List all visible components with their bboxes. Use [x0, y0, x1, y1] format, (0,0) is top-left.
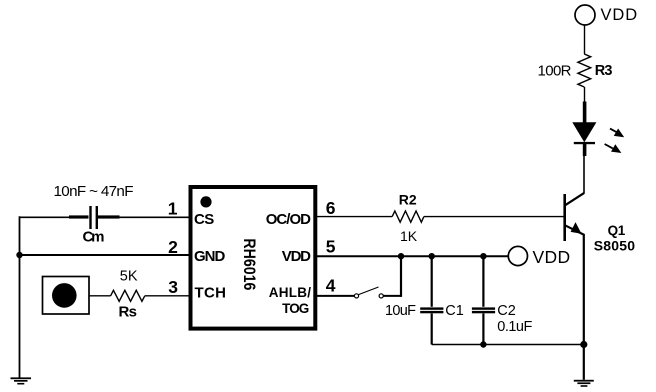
wire pad to Rs	[89, 295, 111, 297]
svg-text:5: 5	[326, 237, 336, 257]
svg-text:100R: 100R	[538, 63, 572, 80]
wire R2 to Q1 base	[424, 216, 565, 218]
wire pin2 net (GND) horizontal	[20, 254, 191, 256]
svg-text:10nF ~ 47nF: 10nF ~ 47nF	[54, 183, 134, 200]
wire switch to VDD net	[384, 256, 402, 297]
svg-text:OC/OD: OC/OD	[266, 211, 311, 228]
node junction C2 top	[480, 253, 486, 259]
wire LED to collector	[583, 156, 585, 193]
wire left vertical rail	[19, 216, 21, 378]
node junction at pin2/left rail	[16, 252, 22, 258]
svg-text:10uF: 10uF	[385, 303, 416, 319]
wire emitter down	[583, 234, 585, 380]
svg-text:Cm: Cm	[83, 228, 105, 245]
IC U1 RH6016 body	[191, 187, 316, 329]
svg-text:R2: R2	[399, 191, 417, 207]
capacitor Cm	[69, 206, 120, 229]
wire Rs to pin3	[145, 295, 190, 297]
svg-text:C2: C2	[497, 303, 516, 319]
LED light arrow 1	[610, 129, 624, 138]
wire R3 to LED	[584, 87, 586, 103]
resistor R2	[392, 211, 424, 222]
pin1 orientation dot	[200, 196, 211, 207]
capacitor C1	[420, 256, 443, 344]
power VDD (mid) circle	[508, 246, 527, 265]
svg-text:5K: 5K	[120, 268, 138, 284]
svg-text:RH6016: RH6016	[240, 238, 258, 290]
svg-text:3: 3	[168, 277, 178, 297]
node junction emitter/bottom	[580, 341, 587, 348]
wire pin5 (VDD net) horizontal	[316, 255, 509, 257]
svg-text:1: 1	[168, 199, 178, 219]
wire pin6 to R2	[316, 216, 393, 218]
svg-text:CS: CS	[194, 211, 214, 228]
svg-text:C1: C1	[445, 303, 464, 319]
capacitor C2	[472, 256, 495, 344]
node junction switch/VDD	[398, 253, 404, 259]
node junction C1 top	[429, 253, 435, 259]
LED light arrow 2	[605, 144, 622, 153]
transistor Q1	[563, 193, 584, 241]
switch SW1	[354, 287, 383, 298]
resistor R3	[578, 54, 591, 87]
svg-text:S8050: S8050	[594, 237, 636, 253]
node junction C2 bottom	[480, 341, 486, 347]
ground (right)	[574, 380, 594, 387]
svg-text:TOG: TOG	[282, 301, 309, 316]
svg-text:2: 2	[168, 237, 178, 257]
wire VDD to R3	[584, 25, 586, 54]
wire pin1 net (CS) horizontal	[20, 216, 191, 218]
svg-text:6: 6	[326, 198, 336, 218]
svg-text:TCH: TCH	[195, 284, 227, 301]
svg-text:4: 4	[326, 276, 336, 296]
svg-text:VDD: VDD	[601, 6, 638, 24]
svg-text:Rs: Rs	[119, 304, 138, 321]
wire bottom (C1/C2/emitter)	[432, 344, 584, 346]
resistor Rs	[111, 290, 145, 301]
svg-text:0.1uF: 0.1uF	[497, 319, 532, 335]
power VDD (top) circle	[575, 5, 595, 25]
LED D1	[572, 102, 596, 157]
svg-text:Q1: Q1	[608, 223, 626, 238]
svg-text:1K: 1K	[400, 228, 418, 244]
svg-text:GND: GND	[194, 248, 225, 265]
svg-text:AHLB/: AHLB/	[269, 285, 312, 300]
ground (left)	[11, 377, 32, 384]
touch pad (electrode)	[43, 277, 90, 315]
svg-text:R3: R3	[595, 63, 613, 79]
svg-text:VDD: VDD	[533, 247, 571, 267]
svg-text:VDD: VDD	[282, 248, 311, 265]
wire pin4 to switch	[316, 295, 355, 297]
